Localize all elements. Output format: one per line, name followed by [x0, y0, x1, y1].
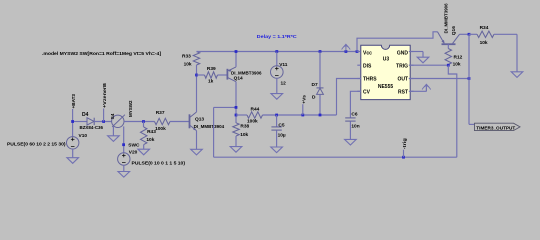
- switch S4: [112, 115, 124, 127]
- svg-text:10µ: 10µ: [278, 133, 286, 139]
- wire TRIG to R12: [409, 64, 449, 66]
- wire to R34: [469, 33, 477, 35]
- wire Q13 emitter down: [196, 131, 198, 150]
- ground C6: [345, 139, 357, 145]
- node Q16/R34/OUT: [468, 33, 471, 36]
- svg-text:.model MYSW2 SW[Ron=1 Roff=1Me: .model MYSW2 SW[Ron=1 Roff=1Meg Vt=5 Vh=…: [42, 51, 161, 57]
- svg-text:S4: S4: [110, 113, 116, 119]
- port TIMER3_OUTPUT: [475, 123, 521, 130]
- svg-text:+BAT3: +BAT3: [71, 94, 77, 109]
- svg-text:CV: CV: [363, 90, 371, 96]
- node +Vs stub: [301, 114, 304, 117]
- svg-text:+Vs: +Vs: [301, 95, 307, 104]
- node D7 anode: [319, 114, 322, 117]
- node R43 junction: [142, 120, 145, 123]
- wire S4 ctrl- to ground: [112, 127, 114, 136]
- svg-text:R33: R33: [182, 54, 191, 60]
- capacitor C6: [345, 117, 355, 119]
- pin stub right: [410, 51, 413, 53]
- svg-text:+VzenerB: +VzenerB: [102, 82, 108, 108]
- wire OUT vertical: [468, 34, 470, 124]
- svg-text:BZX84-C36: BZX84-C36: [80, 125, 104, 130]
- transistor Q14: [226, 69, 228, 80]
- svg-text:R39: R39: [207, 66, 216, 72]
- wire C6 to ground: [349, 121, 351, 139]
- wire top rail to Q16: [357, 32, 438, 52]
- wire R34 down to ground: [516, 34, 518, 72]
- node rail/flag: [345, 50, 348, 53]
- svg-text:U3: U3: [383, 56, 390, 62]
- wire GND pin: [409, 51, 423, 53]
- svg-text:Delay = 1.1*R*C: Delay = 1.1*R*C: [257, 34, 298, 40]
- svg-text:THRS: THRS: [363, 77, 377, 83]
- resistor R33: [193, 52, 199, 66]
- ground Q13 emitter: [191, 149, 203, 155]
- ground GND pin: [417, 57, 429, 63]
- transistor Q16: [442, 43, 456, 45]
- resistor R38: [233, 123, 239, 136]
- pin stub left: [357, 78, 361, 80]
- svg-text:SWC: SWC: [128, 143, 140, 149]
- wire V11 to ground: [276, 78, 278, 93]
- node rail/D7: [319, 50, 322, 53]
- wire D7 anode down: [319, 94, 321, 115]
- svg-text:R12: R12: [454, 55, 463, 61]
- wire +VzenerB stub: [103, 109, 105, 122]
- op-amp U3 NE555 body: [361, 45, 410, 99]
- svg-text:V11: V11: [279, 62, 288, 68]
- svg-text:10k: 10k: [480, 40, 488, 46]
- pin stub right: [410, 78, 413, 80]
- svg-text:10k: 10k: [240, 132, 248, 138]
- svg-text:TRIG: TRIG: [396, 63, 408, 69]
- svg-text:Q13: Q13: [195, 117, 204, 123]
- svg-text:D: D: [312, 95, 316, 101]
- ground V20: [118, 172, 130, 178]
- svg-text:C6: C6: [351, 112, 357, 118]
- svg-text:-trig: -trig: [402, 138, 408, 149]
- svg-text:100k: 100k: [247, 118, 258, 124]
- wire Q16 collector to node: [460, 33, 470, 35]
- net flag arrow RST: [425, 85, 427, 92]
- wire V20 to ground: [123, 165, 125, 171]
- wire CV to C6: [350, 91, 361, 117]
- svg-text:12: 12: [281, 80, 287, 86]
- node OUT: [468, 77, 471, 80]
- wire TRIG descent to -trig rail: [448, 65, 457, 157]
- node junction V10/+BAT3: [71, 120, 74, 123]
- svg-text:Q16: Q16: [451, 26, 457, 35]
- ground R34: [511, 72, 523, 78]
- svg-text:Q14: Q14: [234, 75, 243, 81]
- wire OUT pin: [409, 78, 469, 80]
- wire left drop to bottom rail: [213, 107, 215, 157]
- svg-text:V10: V10: [79, 133, 88, 139]
- node C5: [275, 114, 278, 117]
- voltage source V10: [67, 137, 79, 149]
- wire to output port: [469, 123, 475, 125]
- svg-text:MYSW2: MYSW2: [128, 100, 134, 117]
- wire S4 ctrl+ to V20: [123, 126, 125, 152]
- svg-text:PULSE(0 60 10 2 2 15 30): PULSE(0 60 10 2 2 15 30): [7, 141, 66, 146]
- svg-text:OUT: OUT: [397, 77, 408, 83]
- svg-text:RST: RST: [398, 90, 408, 96]
- wire RST up: [425, 87, 427, 91]
- svg-text:R44: R44: [251, 106, 260, 112]
- diode D7: [317, 87, 324, 89]
- svg-text:GND: GND: [397, 50, 409, 56]
- resistor R39: [197, 74, 205, 76]
- node -trig stub: [402, 156, 405, 159]
- node rail/top corner: [356, 50, 359, 53]
- voltage source V11: [271, 66, 284, 79]
- svg-text:DI_MMBT3904: DI_MMBT3904: [194, 124, 225, 129]
- wire V11 top: [276, 52, 278, 66]
- wire -trig stub: [403, 150, 405, 158]
- wire A to D4: [73, 121, 87, 123]
- wire Q14 emitter to rail: [235, 52, 237, 67]
- ground C5: [271, 147, 283, 153]
- node Q14 collector: [235, 106, 238, 109]
- svg-text:TIMER3_OUTPUT: TIMER3_OUTPUT: [476, 125, 515, 130]
- svg-text:R37: R37: [156, 110, 165, 116]
- wire Vcc rail: [197, 51, 359, 53]
- wire Q13 collector up: [196, 75, 198, 112]
- svg-text:10k: 10k: [146, 137, 154, 143]
- svg-text:1k: 1k: [208, 78, 214, 84]
- svg-text:10n: 10n: [351, 124, 359, 130]
- wire R44 to THRS corner: [263, 114, 337, 116]
- pin stub left: [357, 51, 361, 53]
- pin stub right: [410, 90, 413, 92]
- ground V10: [67, 158, 79, 164]
- svg-text:Vcc: Vcc: [363, 50, 372, 56]
- wire GND down: [422, 52, 424, 58]
- pin stub left: [357, 90, 361, 92]
- node rail/Q14: [235, 50, 238, 53]
- svg-text:10k: 10k: [184, 61, 192, 67]
- node SWC: [122, 143, 125, 146]
- node TRIG/R12: [447, 64, 450, 67]
- resistor R44: [247, 112, 263, 118]
- wire D4 to S4: [94, 121, 112, 123]
- svg-text:DIS: DIS: [363, 63, 372, 69]
- svg-text:V20: V20: [129, 149, 138, 155]
- resistor R34: [477, 31, 494, 37]
- wire R37 to Q13 base: [170, 121, 190, 123]
- pin stub right: [410, 64, 413, 66]
- wire +BAT3 stub / V10 top: [72, 109, 74, 137]
- svg-text:D4: D4: [82, 112, 89, 118]
- ground R43: [138, 149, 150, 155]
- wire R34 right: [494, 33, 517, 35]
- ground V11: [271, 94, 283, 100]
- svg-text:NE555: NE555: [378, 84, 394, 90]
- svg-text:DI_MMBT3906: DI_MMBT3906: [444, 3, 449, 33]
- svg-text:100k: 100k: [155, 126, 166, 132]
- wire THRS to RC node: [337, 79, 362, 116]
- wire V10 to ground: [72, 149, 74, 158]
- transistor Q13: [189, 114, 191, 128]
- wire to R44: [236, 114, 247, 116]
- svg-text:10k: 10k: [453, 62, 461, 68]
- wire bottom -trig rail: [214, 156, 457, 158]
- wire D7 cathode to rail: [319, 52, 321, 88]
- resistor R12: [445, 49, 451, 65]
- diode D4 BZX84-C36: [87, 118, 94, 125]
- ground R38: [230, 147, 242, 153]
- resistor R43: [143, 122, 145, 128]
- node +VzenerB junction: [102, 120, 105, 123]
- capacitor C5: [276, 115, 278, 127]
- wire RST pin: [409, 90, 427, 92]
- wire Q14 collector down: [235, 82, 237, 123]
- svg-text:D7: D7: [312, 82, 318, 88]
- resistor R37: [155, 118, 171, 124]
- node R33/R39/Q13: [195, 74, 198, 77]
- ground S4 ctrl-: [108, 136, 120, 142]
- voltage source V20: [118, 153, 130, 165]
- net flag arrow on rail: [345, 45, 347, 52]
- node R38/R44: [235, 114, 238, 117]
- svg-text:R38: R38: [240, 124, 249, 130]
- wire Q16 base to R12: [447, 44, 449, 48]
- svg-text:DI_MMBT3906: DI_MMBT3906: [231, 70, 262, 75]
- wire C5 to ground: [276, 130, 278, 147]
- pin stub left: [357, 64, 361, 66]
- svg-text:C5: C5: [278, 123, 284, 129]
- wire S4 to R37: [124, 121, 155, 123]
- node rail/V11: [275, 50, 278, 53]
- wire +Vs stub: [302, 104, 304, 115]
- svg-text:PULSE(0 10 0 1 1 5 10): PULSE(0 10 0 1 1 5 10): [132, 160, 186, 165]
- svg-text:R34: R34: [480, 25, 489, 31]
- wire Q14 collector node left: [214, 106, 236, 108]
